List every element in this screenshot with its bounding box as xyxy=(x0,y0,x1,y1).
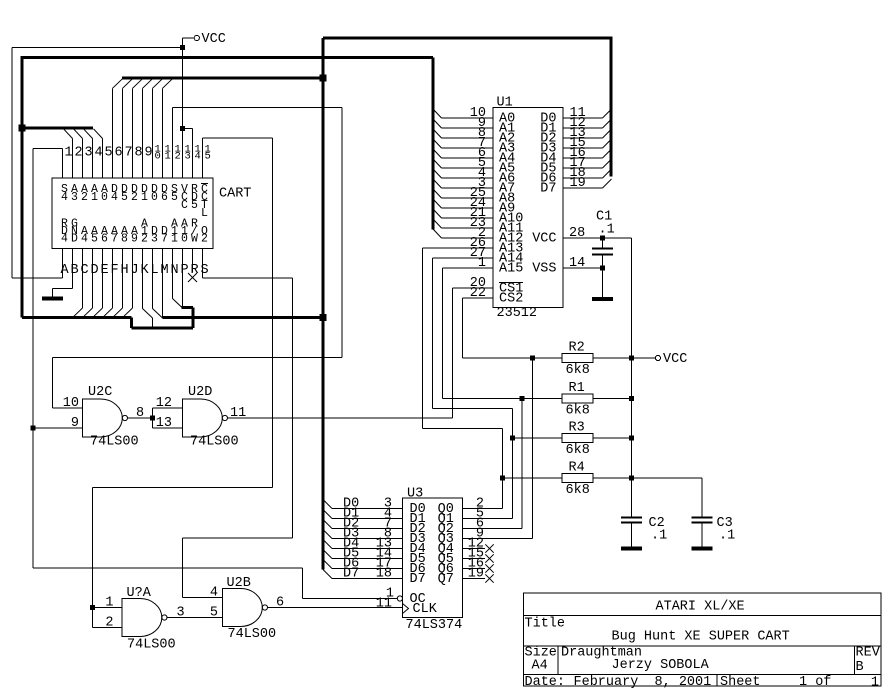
svg-text:CART: CART xyxy=(219,187,251,202)
U3 output Q6 no-connect xyxy=(462,564,493,572)
svg-text:U1: U1 xyxy=(497,96,513,111)
svg-text:REV: REV xyxy=(856,646,881,661)
svg-text:5: 5 xyxy=(191,199,198,212)
wire net A13/Q0/R4 xyxy=(423,248,563,509)
svg-text:6k8: 6k8 xyxy=(566,363,590,378)
svg-text:0: 0 xyxy=(151,191,158,204)
data bus right vertical to U1 data pins xyxy=(610,36,613,176)
svg-text:6: 6 xyxy=(161,191,168,204)
svg-text:P: P xyxy=(180,263,188,278)
svg-text:5: 5 xyxy=(205,151,211,163)
svg-text:R1: R1 xyxy=(569,381,585,396)
svg-text:23512: 23512 xyxy=(497,306,538,321)
nand gate U2D 74LS00 xyxy=(183,385,239,450)
svg-text:3: 3 xyxy=(185,151,191,163)
svg-text:5: 5 xyxy=(91,233,98,246)
U3 data input wire D3 from bus xyxy=(323,527,403,542)
svg-text:H: H xyxy=(120,263,128,278)
svg-text:10: 10 xyxy=(63,396,79,411)
svg-text:1: 1 xyxy=(91,191,98,204)
svg-text:S: S xyxy=(200,263,208,278)
svg-text:6: 6 xyxy=(276,596,284,611)
no-connect X at CART pin R xyxy=(188,273,197,282)
svg-text:7: 7 xyxy=(161,233,168,246)
wire U2A output 3 to U2B input 5 xyxy=(167,617,223,619)
wire net VCC top: rail from VCC symbol to CART pin 13 and left rail xyxy=(12,38,194,278)
latch U3 74LS374 body xyxy=(403,487,463,634)
svg-text:2: 2 xyxy=(105,616,113,631)
U3 data input wire D7 from bus xyxy=(323,567,403,582)
U1 address pin wire A7 with bus tap xyxy=(433,179,493,188)
resistor R1 6k8 xyxy=(562,381,632,419)
CART top pin 5 (A0) stub + bus tap xyxy=(94,129,103,178)
svg-text:A4: A4 xyxy=(532,659,548,674)
CART bottom pin C (A4) stub + bus tap xyxy=(74,249,83,317)
U1 address pin wire A1 with bus tap xyxy=(433,119,493,128)
CART top pin 14 (RD5) stub xyxy=(183,129,193,178)
svg-text:14: 14 xyxy=(569,256,585,271)
U1 address pin wire A9 with bus tap xyxy=(433,199,493,208)
bus junction at left trunk / pins2-5 branch xyxy=(19,125,26,132)
svg-text:U3: U3 xyxy=(407,487,423,502)
svg-text:3: 3 xyxy=(177,606,185,621)
svg-text:.1: .1 xyxy=(719,529,735,544)
svg-text:Title: Title xyxy=(525,617,566,632)
svg-text:6: 6 xyxy=(101,233,108,246)
svg-text:74LS00: 74LS00 xyxy=(190,435,239,450)
U3 data input wire D0 from bus xyxy=(323,497,403,512)
U1 address pin wire A11 with bus tap xyxy=(433,219,493,228)
junction VCC rail / R4 xyxy=(629,476,634,481)
junction CCTL / U2A pin1 xyxy=(90,605,95,610)
U1 address pin wire A3 with bus tap xyxy=(433,139,493,148)
svg-text:7: 7 xyxy=(125,146,133,161)
svg-text:D7: D7 xyxy=(343,567,359,582)
U1 address pin wire A6 with bus tap xyxy=(433,169,493,178)
svg-text:D: D xyxy=(71,233,78,246)
data bus top horizontal xyxy=(323,36,611,39)
svg-text:VSS: VSS xyxy=(532,262,556,277)
junction C1 top / VCC line xyxy=(600,236,605,241)
svg-text:7: 7 xyxy=(111,233,118,246)
svg-text:4: 4 xyxy=(61,191,68,204)
CART top pin 6 (D4) stub + bus tap xyxy=(113,78,123,178)
svg-text:2: 2 xyxy=(81,191,88,204)
CART top pin 11 (D6) stub + bus tap xyxy=(163,78,173,178)
wire net O2: CART pin S to U2B pin4 xyxy=(183,278,293,598)
U3 data input wire D5 from bus xyxy=(323,547,403,562)
junction U2C out / U2D inputs xyxy=(150,416,155,421)
bottom bus along CART underside xyxy=(22,308,193,328)
svg-text:4: 4 xyxy=(195,151,201,163)
svg-text:Jerzy SOBOLA: Jerzy SOBOLA xyxy=(612,658,710,673)
svg-text:11: 11 xyxy=(230,406,246,421)
svg-text:0: 0 xyxy=(101,191,108,204)
CART top pin 4 (A1) stub + bus tap xyxy=(84,129,93,178)
svg-text:4: 4 xyxy=(81,233,88,246)
svg-text:6k8: 6k8 xyxy=(566,404,590,419)
junction VCC line / RD5 branch xyxy=(180,126,185,131)
svg-text:VCC: VCC xyxy=(202,32,226,47)
CART top pin 10 (D0) stub + bus tap xyxy=(153,78,163,178)
svg-text:6: 6 xyxy=(115,146,123,161)
CART top pin 1 (S4) stub xyxy=(62,148,64,178)
svg-text:6k8: 6k8 xyxy=(566,443,590,458)
U1 data pin wire D0 with bus tap xyxy=(563,109,612,118)
junction S4 / U2C pin9 xyxy=(31,426,36,431)
U1 address pin wire A10 with bus tap xyxy=(433,209,493,218)
svg-text:K: K xyxy=(140,263,149,278)
svg-text:2: 2 xyxy=(75,146,83,161)
U3 OC inverting bubble xyxy=(397,596,402,601)
svg-text:4: 4 xyxy=(61,233,68,246)
U1 pin name and number labels xyxy=(470,106,586,307)
ground symbol at CART pin B xyxy=(42,297,63,299)
junction VCC rail tee xyxy=(180,45,185,50)
junction C1 bottom / VSS line xyxy=(600,266,605,271)
wire U2B output 6 to U3 CLK xyxy=(268,607,403,609)
CART bottom pin R (R/W) stub, not connected xyxy=(192,249,194,273)
U1 address pin wire A12 with bus tap xyxy=(433,229,493,238)
svg-text:R2: R2 xyxy=(569,341,585,356)
svg-text:R4: R4 xyxy=(569,461,585,476)
svg-text:9: 9 xyxy=(131,233,138,246)
junction VCC rail / R1 xyxy=(629,396,634,401)
svg-text:13: 13 xyxy=(156,416,172,431)
bus: top horizontal to U1 address side xyxy=(21,58,434,230)
VCC power symbol right xyxy=(655,352,687,367)
svg-text:2: 2 xyxy=(175,151,181,163)
wire net CCTL: CART pin15 to U2A inputs 1,2 xyxy=(93,138,273,628)
svg-text:Sheet: Sheet xyxy=(720,675,761,688)
svg-text:.1: .1 xyxy=(599,223,615,238)
CART top signal names row xyxy=(61,183,208,220)
svg-text:8: 8 xyxy=(121,233,128,246)
junction A14/Q1/R3 xyxy=(510,436,515,441)
title block frame xyxy=(524,593,882,686)
U1 data pin wire D1 with bus tap xyxy=(563,119,612,128)
CART bottom pin D (A5) stub + bus tap xyxy=(84,249,93,317)
capacitor C3 .1 xyxy=(692,516,736,547)
svg-text:CLK: CLK xyxy=(413,602,438,617)
U1 data pin wire D3 with bus tap xyxy=(563,139,612,148)
svg-text:1 of: 1 of xyxy=(799,675,831,688)
U2D pin labels 12,13,11 xyxy=(156,396,246,431)
address/data bus: left vertical trunk xyxy=(21,58,24,318)
svg-text:February 8, 2001: February 8, 2001 xyxy=(574,675,712,688)
svg-text:U2B: U2B xyxy=(227,576,251,591)
U1 address pin wire A4 with bus tap xyxy=(433,149,493,158)
svg-text:J: J xyxy=(130,263,138,278)
svg-text:Q7: Q7 xyxy=(438,572,454,587)
svg-text:3: 3 xyxy=(71,191,78,204)
svg-text:U2D: U2D xyxy=(188,385,212,400)
wire R4 row to C3 xyxy=(632,478,703,518)
U1 data pin wire D4 with bus tap xyxy=(563,149,612,158)
U1 address pin wire A0 with bus tap xyxy=(433,109,493,118)
CART bottom pin M (D7) stub xyxy=(162,249,164,318)
title block text xyxy=(525,600,881,688)
svg-text:1: 1 xyxy=(105,596,113,611)
CART bottom pin K (A12) stub + bus tap xyxy=(143,249,153,328)
wire net A14/Q1/R3 xyxy=(433,258,563,519)
U3 CLK edge triangle xyxy=(403,604,409,614)
svg-text:VCC: VCC xyxy=(663,352,687,367)
svg-text:22: 22 xyxy=(470,286,486,301)
U1 data pin wire D2 with bus tap xyxy=(563,129,612,138)
svg-text:8: 8 xyxy=(136,406,144,421)
svg-text:1: 1 xyxy=(478,256,486,271)
svg-text:CS2: CS2 xyxy=(499,292,523,307)
junction CS2/Q3/R2 xyxy=(530,356,535,361)
wire net RD4: from left rail to CART pin A xyxy=(12,277,63,279)
bus: CART data pins 6-11 branch xyxy=(122,76,323,79)
wire net A15/Q2/R1 xyxy=(443,268,563,529)
capacitor C2 .1 xyxy=(621,516,667,547)
U3 data input wire D4 from bus xyxy=(323,537,403,552)
svg-text:VCC: VCC xyxy=(532,232,556,247)
svg-text:A15: A15 xyxy=(499,262,523,277)
junction VCC rail / R2 xyxy=(629,356,634,361)
svg-text:1: 1 xyxy=(171,233,178,246)
CART top pin 12 (S5) stub xyxy=(172,108,174,179)
svg-text:8: 8 xyxy=(135,146,143,161)
ground symbol at C2 xyxy=(621,547,642,549)
svg-text:74LS00: 74LS00 xyxy=(127,638,176,653)
svg-text:4: 4 xyxy=(210,586,218,601)
nand gate U2B 74LS00 xyxy=(223,576,277,642)
wire VCC rail to VCC symbol xyxy=(632,357,656,359)
CART top pin 3 (A2) stub + bus tap xyxy=(74,129,83,178)
wire net S5: CART pin12 to U2C pin10 xyxy=(53,108,342,409)
cartridge connector CART body xyxy=(52,178,251,249)
U1 address pin wire A2 with bus tap xyxy=(433,129,493,138)
wire net S4: CART pin1 to U2C pin9 and U3 OC xyxy=(33,148,397,598)
CART bottom pin P (A10) stub xyxy=(182,249,184,308)
data bus vertical trunk xyxy=(322,38,325,570)
CART top pin numbers 1-15 xyxy=(65,144,211,163)
CART bottom signal names row xyxy=(61,218,208,246)
svg-text:74LS00: 74LS00 xyxy=(90,435,139,450)
svg-text:E: E xyxy=(100,263,108,278)
CART bottom pin J (A9) stub + bus tap xyxy=(124,249,133,317)
wire net CS1: U2D output 11 to U1 CS1 xyxy=(228,288,494,418)
svg-text:9: 9 xyxy=(145,146,153,161)
svg-text:9: 9 xyxy=(71,416,79,431)
svg-text:5: 5 xyxy=(210,606,218,621)
svg-text:3: 3 xyxy=(151,233,158,246)
svg-text:D: D xyxy=(90,263,98,278)
svg-text:L: L xyxy=(201,207,208,220)
CART bottom pin L (D3) stub + bus tap xyxy=(153,249,163,319)
junction A15/Q2/R1 xyxy=(520,396,525,401)
U2B pin labels 4,5,6 xyxy=(210,586,284,621)
svg-text:5: 5 xyxy=(105,146,113,161)
svg-text:0: 0 xyxy=(181,233,188,246)
svg-text:Bug Hunt XE SUPER CART: Bug Hunt XE SUPER CART xyxy=(612,630,790,645)
svg-text:.1: .1 xyxy=(651,529,667,544)
svg-text:2: 2 xyxy=(201,233,208,246)
svg-text:5: 5 xyxy=(171,191,178,204)
resistor R3 6k8 xyxy=(562,421,632,459)
CART top pin 7 (D5) stub + bus tap xyxy=(123,78,133,178)
junction A13/Q0/R4 xyxy=(500,476,505,481)
svg-text:5: 5 xyxy=(121,191,128,204)
U2C pin labels 10,9,8 xyxy=(63,396,144,431)
U3 output Q7 no-connect xyxy=(462,574,493,582)
U3 data input wire D6 from bus xyxy=(323,557,403,572)
svg-text:1: 1 xyxy=(871,676,879,688)
svg-text:11: 11 xyxy=(376,597,392,612)
svg-text:12: 12 xyxy=(156,396,172,411)
VCC power symbol top xyxy=(194,32,226,47)
U3 output Q5 no-connect xyxy=(462,554,493,562)
svg-text:U2C: U2C xyxy=(88,385,112,400)
wire net CS2/Q3/R2 xyxy=(462,298,562,539)
U2A pin labels 1,2,3 xyxy=(105,596,184,631)
svg-text:1: 1 xyxy=(165,151,171,163)
U3 data input wire D2 from bus xyxy=(323,517,403,532)
svg-text:D7: D7 xyxy=(410,572,426,587)
svg-text:6k8: 6k8 xyxy=(566,483,590,498)
U3 output Q4 no-connect xyxy=(462,544,493,552)
CART bottom pin F (A7) stub + bus tap xyxy=(104,249,113,317)
svg-text:C: C xyxy=(80,263,88,278)
U1 address pin wire A5 with bus tap xyxy=(433,159,493,168)
svg-text:B: B xyxy=(70,263,78,278)
U1 data pin wire D6 with bus tap xyxy=(563,169,612,178)
wire net VSS: U1 pin14 to C1/ground xyxy=(563,267,603,269)
svg-text:B: B xyxy=(856,660,864,675)
svg-text:4: 4 xyxy=(111,191,118,204)
CART bottom pin E (A6) stub + bus tap xyxy=(94,249,103,317)
wire net VCC right rail: U1 pin28 to resistors and C2 xyxy=(563,238,632,518)
nand gate U2A (U?A) 74LS00 xyxy=(122,586,176,653)
svg-text:ATARI XL/XE: ATARI XL/XE xyxy=(656,600,745,615)
CART bottom pin N (A11) stub + bus tap xyxy=(173,249,183,308)
svg-text:D7: D7 xyxy=(540,182,556,197)
svg-text:C: C xyxy=(181,199,188,212)
ground symbol at C1 xyxy=(592,297,613,300)
svg-text:1: 1 xyxy=(65,146,73,161)
svg-text:N: N xyxy=(170,263,178,278)
CART bottom pin S (O2) stub xyxy=(202,249,204,278)
svg-text:W: W xyxy=(191,233,198,246)
resistor R2 6k8 xyxy=(562,341,632,379)
svg-text:2: 2 xyxy=(141,233,148,246)
U3 pin name and number labels xyxy=(376,497,484,618)
junction VCC rail / R3 xyxy=(629,436,634,441)
svg-text:3: 3 xyxy=(85,146,93,161)
capacitor C1 .1 xyxy=(592,210,615,297)
U3 data input wire D1 from bus xyxy=(323,507,403,522)
CART bottom pin letters A-S xyxy=(60,263,208,278)
svg-text:2: 2 xyxy=(131,191,138,204)
nand gate U2C 74LS00 xyxy=(83,385,139,450)
bus junction bottom bus / data trunk xyxy=(320,314,327,321)
CART top pin 8 (D2) stub + bus tap xyxy=(133,78,143,178)
U1 data pin wire D7 with bus tap xyxy=(563,179,612,188)
svg-text:74LS374: 74LS374 xyxy=(406,618,463,633)
bottom bus segment to data trunk xyxy=(163,316,324,319)
CART bottom pin A (RD4) stub xyxy=(62,249,64,278)
CART bottom pin B (GND) stub xyxy=(53,249,73,297)
bus junction data branch / data trunk xyxy=(320,74,327,81)
svg-text:R3: R3 xyxy=(569,421,585,436)
U1 data pin wire D5 with bus tap xyxy=(563,159,612,168)
resistor R4 6k8 xyxy=(562,461,632,499)
svg-text:U?A: U?A xyxy=(127,586,152,601)
svg-text:1: 1 xyxy=(141,191,148,204)
U1 address pin wire A8 with bus tap xyxy=(433,189,493,198)
svg-text:A: A xyxy=(60,263,69,278)
ground symbol at C3 xyxy=(692,547,713,549)
CART top pin 13 (VCC) stub xyxy=(182,129,184,178)
svg-text:L: L xyxy=(150,263,158,278)
svg-text:Date:: Date: xyxy=(525,675,566,688)
CART top pin 9 (D1) stub + bus tap xyxy=(143,78,153,178)
wire U2C output 8 to U2D inputs 12,13 xyxy=(128,408,183,428)
svg-text:28: 28 xyxy=(569,226,585,241)
svg-text:74LS00: 74LS00 xyxy=(228,627,277,642)
svg-text:0: 0 xyxy=(155,151,161,163)
EPROM U1 23512 body xyxy=(493,96,563,322)
bus: CART pins 2-5 branch xyxy=(21,127,94,130)
svg-text:M: M xyxy=(160,263,168,278)
CART top pin 2 (A3) stub + bus tap xyxy=(64,129,73,178)
svg-text:4: 4 xyxy=(95,146,103,161)
svg-text:F: F xyxy=(110,263,118,278)
CART bottom pin H (A8) stub + bus tap xyxy=(114,249,123,317)
CART top pin 15 (CCTL) stub xyxy=(202,138,204,178)
